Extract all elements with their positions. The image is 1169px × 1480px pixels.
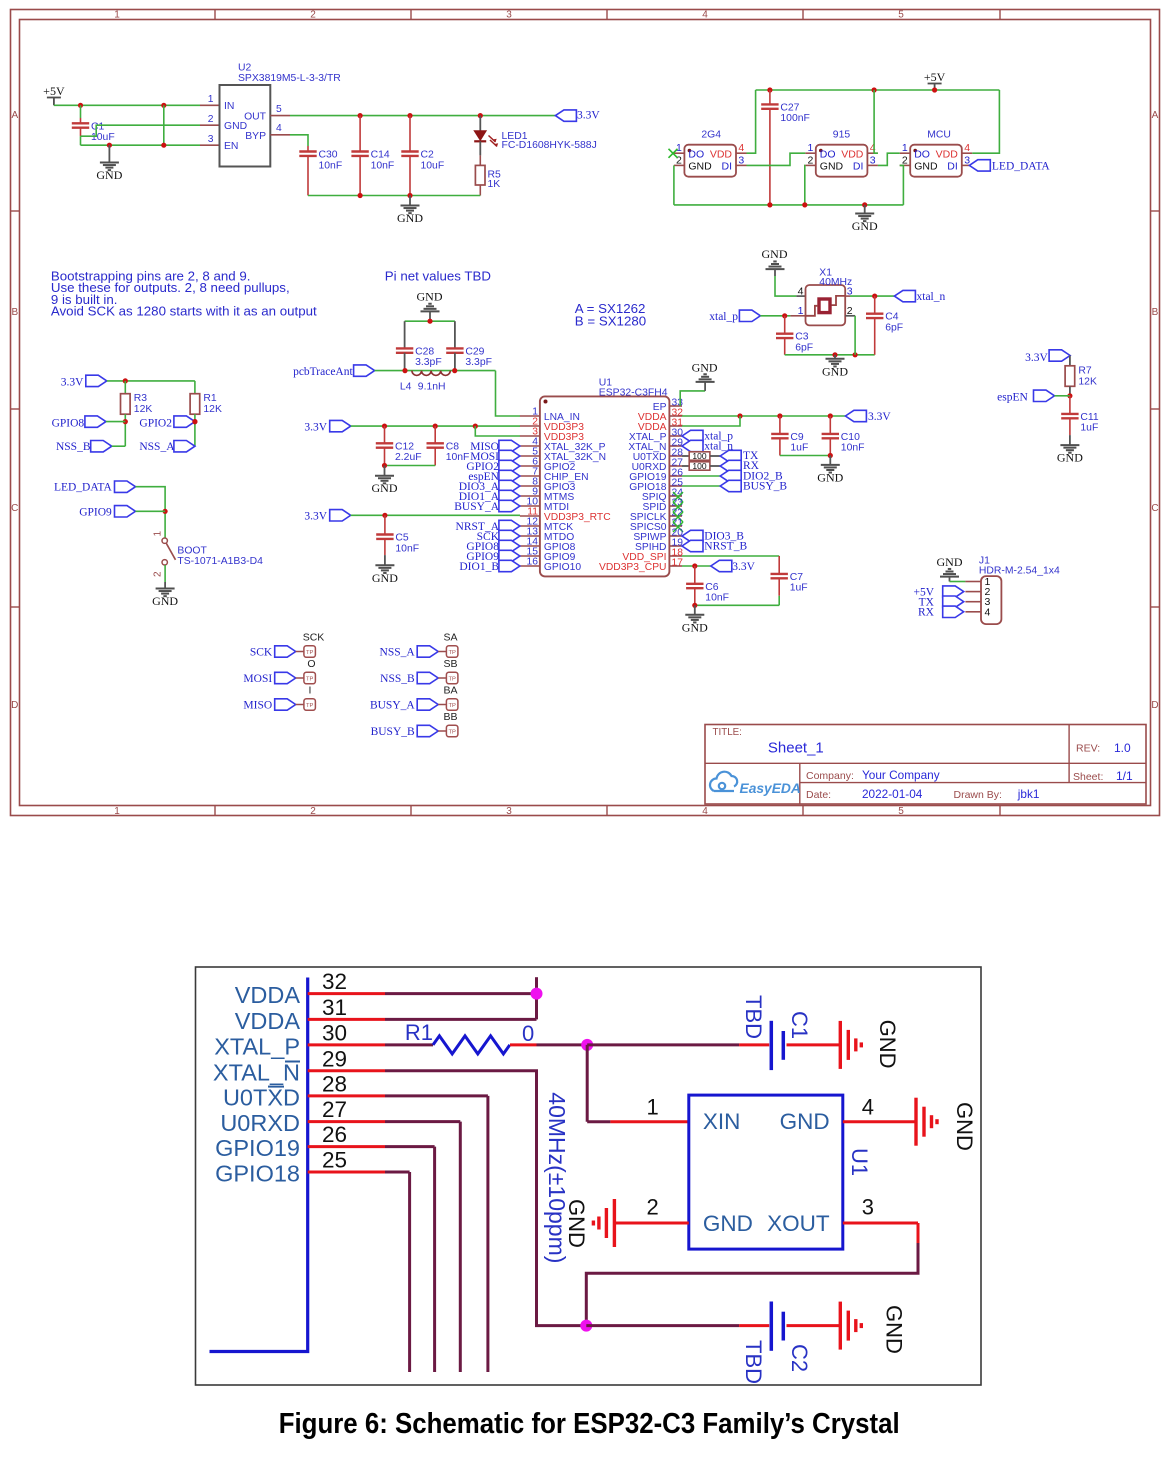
svg-text:10nF: 10nF	[371, 160, 395, 171]
svg-text:BUSY_B: BUSY_B	[371, 726, 415, 738]
svg-text:2: 2	[310, 10, 316, 21]
svg-text:D: D	[11, 700, 18, 711]
svg-text:O: O	[307, 658, 315, 670]
svg-text:100: 100	[692, 461, 706, 471]
svg-text:jbk1: jbk1	[1017, 787, 1040, 801]
svg-text:GND: GND	[688, 160, 712, 172]
svg-text:HDR-M-2.54_1x4: HDR-M-2.54_1x4	[979, 565, 1060, 576]
svg-text:C12: C12	[395, 441, 414, 452]
svg-text:LED_DATA: LED_DATA	[54, 481, 113, 493]
svg-text:GND: GND	[152, 594, 178, 608]
svg-text:pcbTraceAnt: pcbTraceAnt	[293, 366, 353, 378]
svg-text:2G4: 2G4	[701, 129, 721, 140]
svg-text:Company:: Company:	[806, 770, 854, 782]
svg-text:FC-D1608HYK-588J: FC-D1608HYK-588J	[502, 140, 597, 151]
svg-text:B = SX1280: B = SX1280	[575, 314, 646, 329]
svg-text:EN: EN	[224, 141, 238, 152]
svg-text:5: 5	[898, 806, 904, 817]
svg-text:2: 2	[646, 1194, 658, 1219]
svg-text:GPIO18: GPIO18	[215, 1161, 300, 1187]
svg-text:1: 1	[114, 10, 120, 21]
svg-text:C2: C2	[787, 1344, 812, 1372]
svg-text:C11: C11	[1080, 412, 1099, 423]
svg-text:10nF: 10nF	[395, 543, 419, 554]
svg-text:BUSY_A: BUSY_A	[370, 700, 415, 712]
svg-text:GND: GND	[822, 364, 848, 378]
svg-text:5: 5	[276, 104, 282, 115]
svg-text:OUT: OUT	[244, 112, 267, 123]
svg-text:MCU: MCU	[927, 129, 951, 140]
svg-text:SCK: SCK	[303, 632, 325, 644]
svg-text:NSS_B: NSS_B	[56, 441, 91, 453]
svg-text:U0TXD: U0TXD	[223, 1084, 300, 1110]
svg-text:30: 30	[322, 1020, 347, 1045]
svg-text:VDD: VDD	[710, 148, 733, 160]
svg-text:TBD: TBD	[741, 1340, 766, 1384]
svg-text:2022-01-04: 2022-01-04	[862, 787, 923, 801]
svg-text:C1: C1	[787, 1011, 812, 1039]
svg-text:DI: DI	[947, 160, 958, 172]
svg-text:6pF: 6pF	[795, 343, 813, 354]
svg-text:BUSY_A: BUSY_A	[454, 501, 499, 513]
svg-text:espEN: espEN	[997, 391, 1028, 403]
svg-text:VDDA: VDDA	[235, 1008, 301, 1034]
svg-text:TP: TP	[306, 676, 314, 682]
svg-text:1: 1	[676, 142, 682, 154]
svg-text:GND: GND	[96, 168, 122, 182]
svg-text:GND: GND	[703, 1211, 753, 1236]
svg-text:BOOT: BOOT	[177, 546, 207, 557]
svg-text:1: 1	[646, 1095, 658, 1120]
svg-text:GND: GND	[564, 1199, 589, 1248]
svg-text:4: 4	[798, 285, 804, 297]
svg-text:C30: C30	[319, 150, 338, 161]
svg-text:4: 4	[862, 1095, 874, 1120]
svg-text:3.3pF: 3.3pF	[415, 357, 442, 368]
svg-text:GND: GND	[937, 555, 963, 569]
svg-text:GND: GND	[372, 571, 398, 585]
svg-text:C9: C9	[790, 432, 804, 443]
svg-text:28: 28	[322, 1071, 347, 1096]
svg-text:U0RXD: U0RXD	[220, 1110, 300, 1136]
svg-text:TP: TP	[306, 650, 314, 656]
svg-text:DO: DO	[688, 148, 704, 160]
svg-text:10uF: 10uF	[91, 132, 115, 143]
svg-text:LED_DATA: LED_DATA	[992, 161, 1051, 173]
svg-text:1: 1	[807, 142, 813, 154]
svg-text:GND: GND	[882, 1305, 907, 1354]
svg-text:1uF: 1uF	[1080, 423, 1098, 434]
svg-text:3.3V: 3.3V	[304, 421, 327, 433]
svg-text:DIO1_B: DIO1_B	[459, 561, 499, 573]
svg-text:29: 29	[322, 1046, 347, 1071]
svg-text:2: 2	[208, 114, 214, 125]
svg-text:NSS_B: NSS_B	[380, 673, 415, 685]
svg-text:C4: C4	[885, 312, 899, 323]
svg-text:SB: SB	[443, 658, 457, 670]
svg-text:+5V: +5V	[924, 70, 946, 84]
svg-text:25: 25	[322, 1148, 347, 1173]
svg-text:R3: R3	[134, 393, 148, 404]
svg-text:xtal_n: xtal_n	[917, 291, 946, 303]
svg-text:XOUT: XOUT	[767, 1211, 830, 1236]
svg-text:3.3pF: 3.3pF	[465, 357, 492, 368]
svg-text:31: 31	[322, 995, 347, 1020]
svg-text:GPIO8: GPIO8	[52, 417, 85, 429]
svg-text:3.3V: 3.3V	[304, 511, 327, 523]
svg-text:17: 17	[672, 558, 684, 569]
svg-text:Your Company: Your Company	[862, 768, 940, 782]
svg-text:1: 1	[153, 531, 164, 537]
svg-text:ESP32-C3FH4: ESP32-C3FH4	[599, 388, 668, 399]
svg-text:XTAL_P: XTAL_P	[214, 1033, 300, 1059]
svg-text:10nF: 10nF	[841, 443, 865, 454]
svg-text:3: 3	[506, 10, 512, 21]
svg-text:GND: GND	[817, 470, 843, 484]
svg-text:C29: C29	[465, 346, 484, 357]
svg-text:EasyEDA: EasyEDA	[740, 781, 801, 796]
svg-text:3: 3	[870, 155, 876, 167]
svg-text:VDD3P3_CPU: VDD3P3_CPU	[599, 562, 667, 573]
svg-text:9.1nH: 9.1nH	[418, 381, 446, 392]
svg-text:IN: IN	[224, 101, 234, 112]
svg-text:1uF: 1uF	[790, 583, 808, 594]
svg-text:XTAL_N: XTAL_N	[213, 1059, 300, 1085]
svg-text:3: 3	[208, 134, 214, 145]
svg-text:GND: GND	[224, 121, 247, 132]
svg-text:4: 4	[964, 142, 970, 154]
svg-text:GND: GND	[397, 211, 423, 225]
svg-text:4: 4	[702, 806, 708, 817]
svg-text:DO: DO	[820, 148, 836, 160]
svg-text:BYP: BYP	[245, 131, 266, 142]
svg-text:VDD: VDD	[841, 148, 864, 160]
svg-text:3.3V: 3.3V	[868, 411, 891, 423]
svg-text:4: 4	[985, 606, 991, 618]
svg-text:L4: L4	[400, 381, 412, 392]
svg-text:C8: C8	[446, 441, 460, 452]
svg-text:Date:: Date:	[806, 789, 831, 801]
svg-text:GPIO19: GPIO19	[215, 1135, 300, 1161]
svg-text:B: B	[11, 307, 18, 318]
svg-text:R1: R1	[203, 393, 217, 404]
svg-text:GPIO9: GPIO9	[79, 506, 112, 518]
svg-text:U1: U1	[847, 1148, 872, 1176]
svg-text:GND: GND	[952, 1102, 977, 1151]
svg-text:TP: TP	[448, 729, 456, 735]
svg-text:2: 2	[807, 155, 813, 167]
svg-text:TP: TP	[306, 703, 314, 709]
svg-text:C6: C6	[705, 582, 719, 593]
svg-text:2: 2	[153, 571, 164, 577]
svg-text:GND: GND	[852, 219, 878, 233]
svg-text:MOSI: MOSI	[243, 673, 272, 685]
svg-text:Drawn By:: Drawn By:	[954, 789, 1002, 801]
svg-text:GPIO2: GPIO2	[139, 417, 172, 429]
svg-text:5: 5	[898, 10, 904, 21]
svg-text:C2: C2	[421, 150, 435, 161]
svg-text:1/1: 1/1	[1116, 769, 1133, 783]
svg-text:12K: 12K	[203, 404, 222, 415]
svg-text:16: 16	[527, 557, 539, 568]
svg-text:I: I	[309, 685, 312, 697]
svg-text:SCK: SCK	[250, 647, 273, 659]
svg-text:1: 1	[208, 94, 214, 105]
svg-text:SA: SA	[443, 632, 457, 644]
svg-text:26: 26	[322, 1122, 347, 1147]
svg-text:XIN: XIN	[703, 1109, 741, 1134]
svg-text:1K: 1K	[488, 179, 501, 190]
svg-text:GND: GND	[372, 481, 398, 495]
svg-text:2: 2	[310, 806, 316, 817]
svg-text:C7: C7	[790, 572, 804, 583]
svg-text:10nF: 10nF	[705, 593, 729, 604]
svg-text:DI: DI	[853, 160, 864, 172]
svg-text:C14: C14	[371, 150, 390, 161]
svg-text:100nF: 100nF	[780, 113, 809, 124]
svg-text:C3: C3	[795, 332, 809, 343]
svg-text:3: 3	[738, 155, 744, 167]
svg-text:A: A	[1152, 110, 1159, 121]
svg-text:C: C	[1151, 503, 1158, 514]
svg-text:BB: BB	[443, 711, 457, 723]
svg-text:Pi net values TBD: Pi net values TBD	[385, 269, 491, 284]
svg-text:6pF: 6pF	[885, 323, 903, 334]
svg-text:NRST_B: NRST_B	[704, 541, 747, 553]
svg-text:Figure 6: Schematic for ESP32-: Figure 6: Schematic for ESP32-C3 Family’…	[279, 1408, 900, 1440]
svg-text:GPIO10: GPIO10	[544, 562, 581, 573]
svg-text:32: 32	[322, 969, 347, 994]
svg-text:VDDA: VDDA	[235, 982, 301, 1008]
svg-text:+5V: +5V	[43, 84, 65, 98]
svg-text:3.3V: 3.3V	[732, 561, 755, 573]
svg-text:3.3V: 3.3V	[61, 376, 84, 388]
svg-text:Avoid SCK as 1280 starts with: Avoid SCK as 1280 starts with it as an o…	[51, 304, 317, 319]
svg-text:3.3V: 3.3V	[1025, 352, 1048, 364]
svg-text:TITLE:: TITLE:	[713, 727, 742, 738]
svg-text:GND: GND	[682, 620, 708, 634]
svg-text:3: 3	[506, 806, 512, 817]
svg-text:R1: R1	[405, 1020, 433, 1045]
svg-text:BUSY_B: BUSY_B	[743, 481, 787, 493]
svg-text:GND: GND	[820, 160, 844, 172]
svg-text:GND: GND	[417, 290, 443, 304]
svg-text:27: 27	[322, 1097, 347, 1122]
svg-text:C27: C27	[780, 102, 799, 113]
svg-text:1.0: 1.0	[1114, 741, 1131, 755]
svg-text:DI: DI	[722, 160, 733, 172]
svg-text:4: 4	[738, 142, 744, 154]
svg-text:BA: BA	[443, 685, 457, 697]
svg-text:GND: GND	[875, 1020, 900, 1069]
svg-text:C28: C28	[415, 346, 434, 357]
svg-text:VDD: VDD	[936, 148, 959, 160]
svg-text:1uF: 1uF	[790, 443, 808, 454]
svg-text:U2: U2	[238, 63, 252, 74]
svg-text:TP: TP	[448, 650, 456, 656]
svg-text:NSS_A: NSS_A	[380, 647, 416, 659]
svg-text:DO: DO	[914, 148, 930, 160]
svg-text:1: 1	[114, 806, 120, 817]
svg-text:GND: GND	[692, 360, 718, 374]
svg-text:4: 4	[702, 10, 708, 21]
svg-text:NSS_A: NSS_A	[139, 441, 175, 453]
svg-text:TP: TP	[448, 703, 456, 709]
svg-text:C1: C1	[91, 121, 105, 132]
svg-text:R7: R7	[1078, 365, 1092, 376]
svg-text:Sheet:: Sheet:	[1073, 771, 1103, 783]
svg-text:xtal_p: xtal_p	[709, 311, 738, 323]
svg-text:4: 4	[276, 123, 282, 134]
svg-text:C5: C5	[395, 533, 409, 544]
svg-text:C: C	[11, 503, 18, 514]
svg-text:GND: GND	[1057, 451, 1083, 465]
svg-text:1: 1	[902, 142, 908, 154]
svg-text:3: 3	[862, 1194, 874, 1219]
svg-text:GND: GND	[914, 160, 938, 172]
svg-text:GND: GND	[780, 1109, 830, 1134]
svg-text:GND: GND	[762, 247, 788, 261]
svg-text:RX: RX	[918, 607, 935, 619]
svg-text:Sheet_1: Sheet_1	[768, 740, 824, 757]
svg-text:B: B	[1152, 307, 1159, 318]
svg-text:2.2uF: 2.2uF	[395, 452, 422, 463]
svg-text:MISO: MISO	[243, 700, 272, 712]
svg-text:10uF: 10uF	[421, 160, 445, 171]
svg-text:SPX3819M5-L-3-3/TR: SPX3819M5-L-3-3/TR	[238, 73, 341, 84]
svg-text:TS-1071-A1B3-D4: TS-1071-A1B3-D4	[177, 556, 263, 567]
svg-text:915: 915	[833, 129, 851, 140]
svg-text:C10: C10	[841, 432, 860, 443]
svg-text:A: A	[11, 110, 18, 121]
svg-text:12K: 12K	[1078, 376, 1097, 387]
svg-text:0: 0	[522, 1021, 534, 1046]
svg-text:TP: TP	[448, 676, 456, 682]
svg-text:TBD: TBD	[741, 995, 766, 1039]
svg-text:3.3V: 3.3V	[577, 110, 600, 122]
svg-text:12K: 12K	[134, 404, 153, 415]
svg-text:10nF: 10nF	[319, 160, 343, 171]
svg-text:100: 100	[692, 451, 706, 461]
svg-text:D: D	[1151, 700, 1158, 711]
svg-text:REV:: REV:	[1076, 743, 1100, 755]
